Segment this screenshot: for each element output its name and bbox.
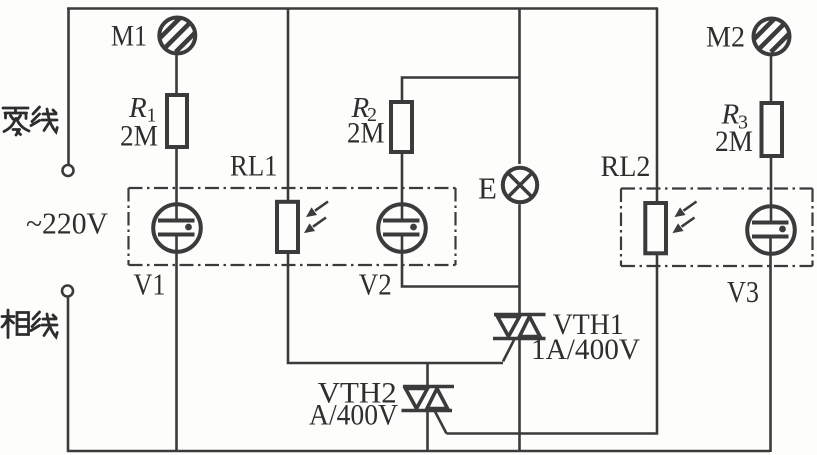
wire M1 to R1 bbox=[175, 52, 178, 95]
electrode M1 bbox=[146, 0, 230, 54]
svg-text:M2: M2 bbox=[706, 20, 745, 53]
svg-text:A/400V: A/400V bbox=[309, 399, 398, 432]
wire V1 to bottom bus bbox=[175, 235, 178, 452]
RL2 light arrows bbox=[674, 202, 697, 233]
wire RL1 to gate node bbox=[288, 254, 503, 363]
svg-text:2M: 2M bbox=[120, 120, 158, 153]
enclosure box RL1 (dash-dot) bbox=[129, 188, 456, 265]
wire VTH2 gate to RL2 bbox=[447, 255, 658, 434]
svg-text:RL2: RL2 bbox=[601, 150, 651, 183]
wire left rail upper bbox=[67, 8, 70, 165]
wire top bus bbox=[67, 7, 658, 10]
svg-text:2M: 2M bbox=[347, 117, 385, 150]
svg-text:2M: 2M bbox=[715, 125, 753, 158]
wire R2 top to node at x520 bbox=[402, 78, 520, 101]
wire top bus to lamp E bbox=[518, 8, 521, 164]
svg-text:1A/400V: 1A/400V bbox=[531, 333, 640, 366]
svg-text:M1: M1 bbox=[111, 20, 147, 53]
wire VTH1 cathode to bottom bus bbox=[518, 339, 521, 453]
wire right rail (V3 to bottom bus) bbox=[769, 237, 772, 452]
svg-text:V3: V3 bbox=[727, 274, 759, 309]
neon tube V2 bbox=[378, 204, 426, 252]
svg-text:~220V: ~220V bbox=[26, 206, 109, 241]
neon tube V3 bbox=[747, 206, 795, 254]
neon tube V1 bbox=[153, 204, 201, 252]
wire VTH2 cathode to bottom bus bbox=[426, 411, 429, 452]
wire R1 to V1 bbox=[175, 149, 178, 221]
resistor R3 bbox=[762, 103, 783, 156]
photoresistor RL1 bbox=[277, 202, 298, 252]
svg-text:V1: V1 bbox=[134, 267, 166, 302]
RL1 light arrows bbox=[306, 202, 329, 233]
wire top bus to RL2 bbox=[656, 8, 659, 201]
wire R2 to V2 bbox=[401, 154, 404, 221]
wire bottom bus bbox=[67, 450, 770, 453]
resistor R2 bbox=[391, 102, 412, 152]
triac VTH2 bbox=[402, 387, 455, 434]
terminal 零线 bbox=[63, 165, 74, 176]
enclosure box RL2 (dash-dot) bbox=[621, 189, 813, 267]
lamp E bbox=[503, 168, 537, 202]
label 零线 (neutral line) bbox=[3, 107, 57, 135]
triac VTH1 bbox=[493, 315, 546, 362]
label 相线 (phase line) bbox=[2, 310, 57, 338]
resistor R1 bbox=[167, 95, 187, 147]
svg-text:E: E bbox=[478, 171, 497, 206]
svg-text:V2: V2 bbox=[359, 267, 392, 302]
photoresistor RL2 bbox=[645, 203, 666, 253]
svg-text:RL1: RL1 bbox=[230, 149, 278, 182]
wire top bus to RL1 bbox=[287, 8, 290, 201]
wire gate node to VTH2 anode bbox=[426, 363, 429, 387]
wire left rail lower bbox=[67, 297, 70, 453]
wire V2 to node at x520 bbox=[402, 235, 520, 287]
wire M2 to R3 bbox=[770, 53, 773, 102]
wire R3 to V3 bbox=[770, 157, 773, 223]
wire lamp E to VTH1 bbox=[518, 204, 521, 314]
terminal 相线 bbox=[62, 286, 73, 297]
electrode M2 bbox=[741, 0, 817, 55]
